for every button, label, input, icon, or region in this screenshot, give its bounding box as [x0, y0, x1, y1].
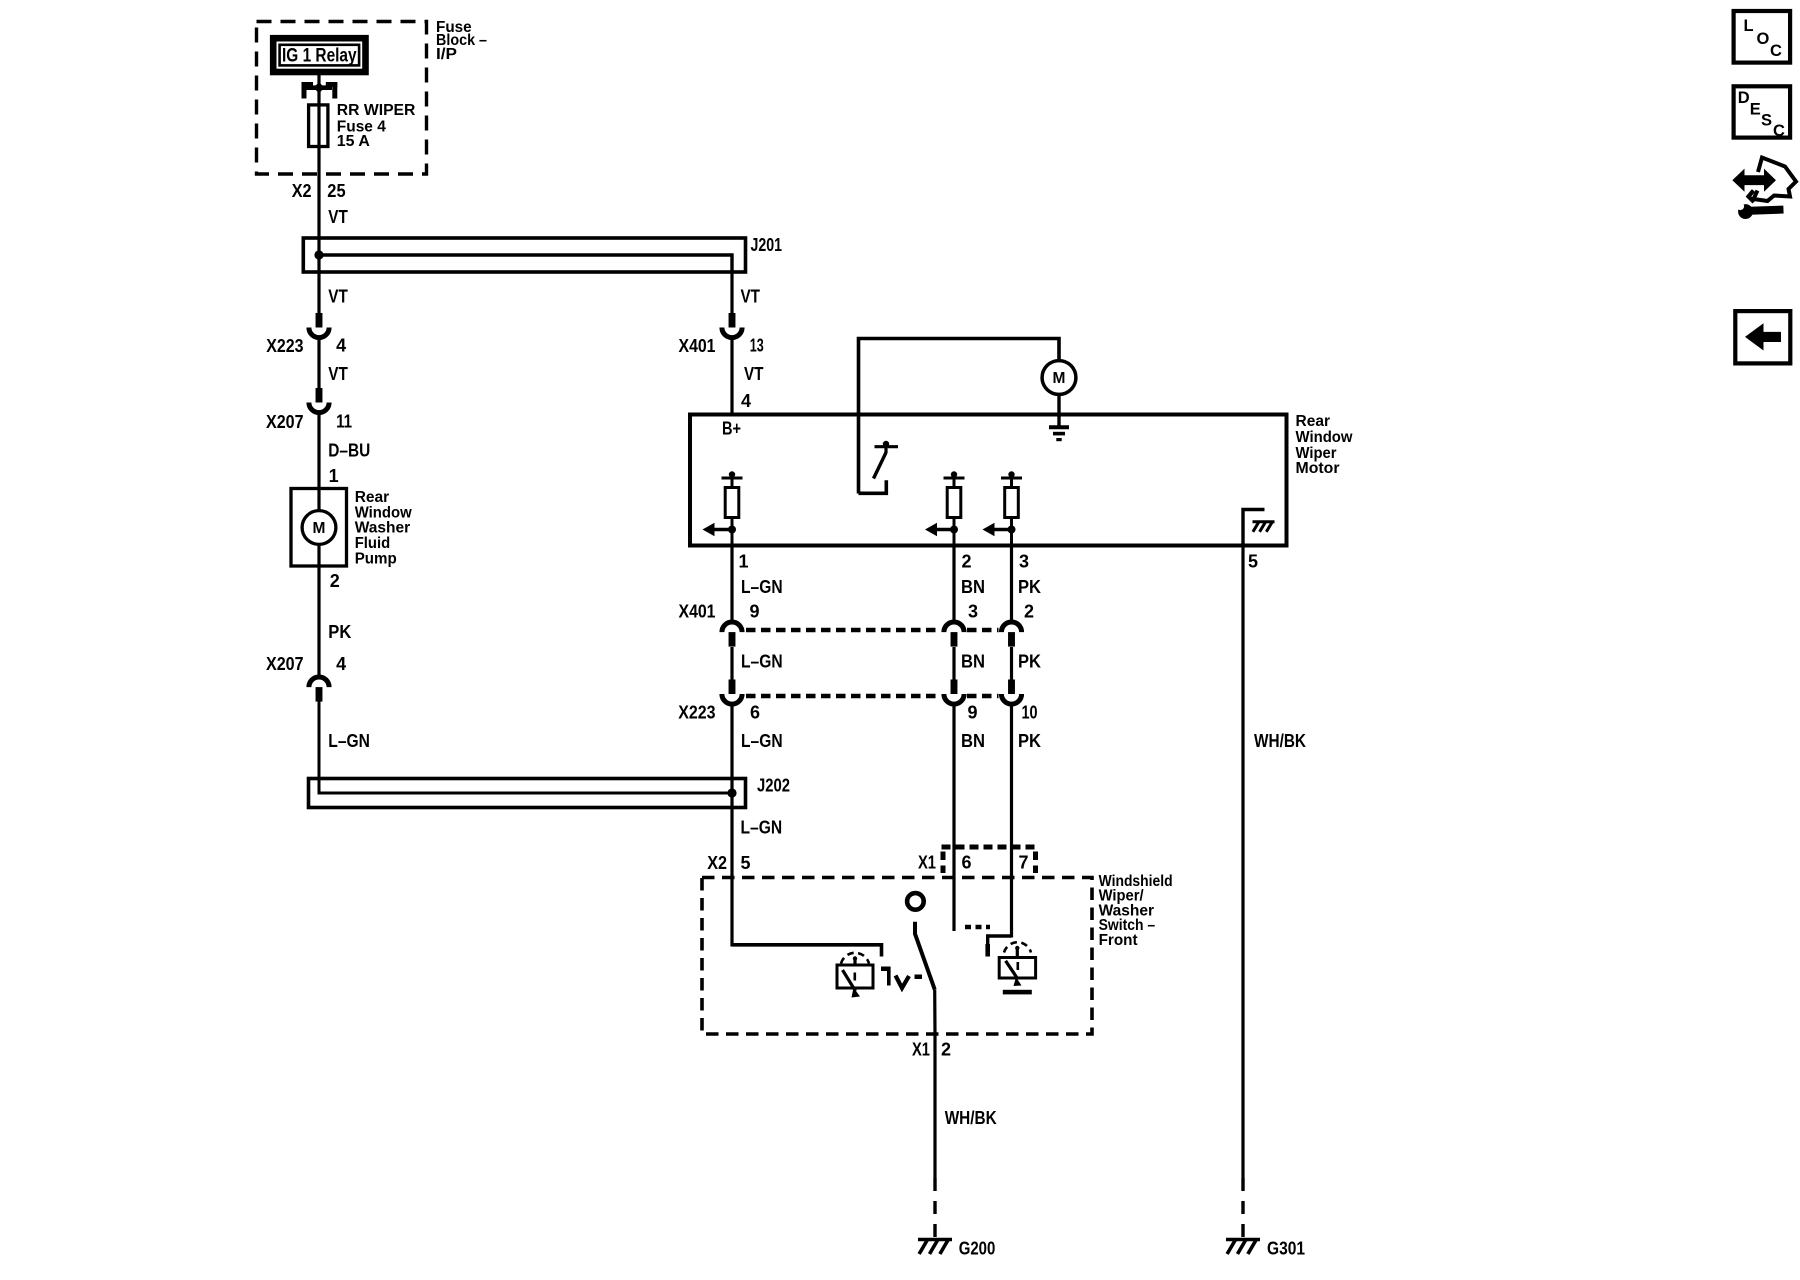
svg-text:7: 7	[1019, 853, 1029, 873]
svg-text:4: 4	[336, 654, 346, 674]
svg-text:PK: PK	[1018, 577, 1041, 597]
icon diagnostic arrows and wrench	[1754, 158, 1797, 202]
svg-text:E: E	[1750, 100, 1761, 118]
svg-text:Window: Window	[1296, 429, 1354, 446]
washer pump icon (washer switch)	[1004, 942, 1031, 952]
junction dot in J202	[727, 788, 736, 797]
svg-text:D–BU: D–BU	[328, 441, 370, 461]
wire PK (left)	[317, 566, 320, 675]
svg-text:S: S	[1761, 112, 1772, 130]
wire L-GN mid	[730, 647, 733, 680]
svg-text:PK: PK	[1018, 731, 1041, 751]
svg-text:X207: X207	[266, 412, 304, 432]
wire relay to fuse	[317, 75, 320, 106]
svg-text:L–GN: L–GN	[741, 818, 783, 838]
svg-text:6: 6	[750, 703, 760, 723]
svg-text:1: 1	[739, 552, 749, 572]
svg-text:L–GN: L–GN	[741, 731, 783, 751]
svg-text:L–GN: L–GN	[741, 577, 783, 597]
svg-text:X207: X207	[266, 654, 304, 674]
svg-text:RR WIPER: RR WIPER	[337, 102, 416, 119]
wire PK mid	[1010, 647, 1013, 680]
svg-text:9: 9	[750, 601, 760, 621]
svg-text:M: M	[313, 520, 326, 537]
svg-text:J201: J201	[751, 235, 783, 255]
wiper park-position icon (wiper switch)	[841, 953, 869, 964]
ground G200 chassis symbol	[918, 1238, 952, 1242]
svg-text:C: C	[1770, 42, 1782, 60]
X401 harness dashed line	[746, 628, 941, 633]
wire J201 down-left (VT)	[317, 272, 320, 314]
wire fuse to splice J201 (VT)	[317, 147, 320, 273]
svg-text:5: 5	[1248, 552, 1258, 572]
connector X207 pin 4 (left lower)	[309, 677, 329, 687]
splice pack J202	[309, 779, 746, 808]
connector X207 pin 11 (left)	[316, 388, 323, 403]
svg-text:Rear: Rear	[1296, 413, 1331, 430]
svg-text:Front: Front	[1099, 932, 1139, 949]
fuse block dashed boundary (Fuse Block - I/P)	[257, 22, 427, 175]
switch input wire bend to wiper contact	[732, 945, 882, 957]
connector X1 dotted group for pins 6 and 7	[942, 845, 1038, 850]
motor contact pin 2 with wiper arrow	[951, 471, 957, 477]
wire J201 down-right (VT)	[730, 272, 733, 314]
wire D-BU	[317, 415, 320, 489]
junction dot in J201	[314, 250, 323, 259]
svg-text:VT: VT	[328, 364, 348, 384]
wire VT to motor B+	[730, 340, 733, 415]
svg-text:2: 2	[330, 571, 340, 591]
svg-text:VT: VT	[744, 364, 764, 384]
svg-text:G301: G301	[1267, 1238, 1305, 1258]
svg-text:J202: J202	[757, 776, 790, 796]
icon LOC box	[1734, 11, 1791, 63]
svg-text:WH/BK: WH/BK	[1254, 731, 1306, 751]
svg-text:VT: VT	[328, 207, 348, 227]
icon DESC box	[1734, 86, 1791, 137]
relay IG 1 Relay	[273, 38, 365, 72]
wire BN mid	[952, 647, 955, 680]
pin 5 chassis ground symbol	[1253, 520, 1275, 523]
park switch fixed contact	[859, 480, 887, 493]
connector X401 pin 3	[952, 546, 955, 620]
svg-text:X223: X223	[678, 703, 715, 723]
svg-text:2: 2	[941, 1040, 951, 1060]
switch throw contact marks	[881, 967, 891, 972]
svg-text:M: M	[1053, 370, 1066, 387]
svg-text:2: 2	[1024, 601, 1034, 621]
svg-text:PK: PK	[1018, 652, 1041, 672]
wire PK to switch X1-7	[1010, 707, 1013, 938]
ground G301 chassis symbol	[1226, 1238, 1260, 1242]
washer icon base bar	[1003, 990, 1032, 995]
svg-text:10: 10	[1022, 703, 1038, 723]
motor contact pin 1 with wiper arrow	[729, 471, 735, 477]
svg-text:B+: B+	[722, 418, 741, 438]
svg-text:O: O	[1757, 30, 1770, 48]
svg-text:L–GN: L–GN	[328, 731, 370, 751]
motor pin 5 internal ground lead	[1243, 510, 1265, 547]
connector X223 pin 9	[951, 680, 958, 695]
mechanical linkage dashes	[965, 925, 990, 930]
svg-text:6: 6	[962, 853, 972, 873]
svg-text:4: 4	[336, 336, 346, 356]
svg-text:BN: BN	[961, 652, 985, 672]
fuse F4 RR WIPER 15 A	[317, 106, 320, 147]
motor internal wire loop to armature	[859, 339, 1060, 494]
svg-text:D: D	[1738, 89, 1750, 107]
svg-text:13: 13	[750, 336, 764, 356]
connector X401 pin 9	[730, 546, 733, 620]
svg-text:15 A: 15 A	[337, 133, 370, 150]
motor contact pin 3 with wiper arrow	[1008, 471, 1014, 477]
svg-text:X401: X401	[679, 336, 716, 356]
wire WH/BK switch to G200	[933, 1034, 936, 1178]
svg-text:X1: X1	[912, 1040, 930, 1060]
wire VT (left)	[317, 340, 320, 389]
switch blade	[915, 922, 935, 990]
relay terminal clip with junction diamond	[302, 82, 314, 87]
svg-text:C: C	[1773, 122, 1785, 140]
splice pack J201	[303, 238, 745, 272]
svg-text:IG 1 Relay: IG 1 Relay	[282, 45, 357, 66]
svg-text:X2: X2	[292, 181, 312, 201]
svg-text:X2: X2	[707, 853, 727, 873]
rear window washer fluid pump box	[291, 489, 347, 567]
svg-text:VT: VT	[328, 286, 348, 306]
connector X223 pin 4 (left)	[316, 313, 323, 328]
park switch pivot and blade	[875, 445, 899, 448]
svg-text:WH/BK: WH/BK	[945, 1108, 997, 1128]
svg-text:X401: X401	[679, 601, 716, 621]
svg-text:PK: PK	[328, 622, 351, 642]
wire L-GN into J202	[319, 702, 732, 794]
windshield wiper/washer switch dashed box	[702, 878, 1092, 1035]
rear window wiper motor box	[690, 415, 1287, 546]
switch output wire to X1-2	[933, 990, 936, 1035]
svg-text:25: 25	[327, 181, 345, 201]
wire WH/BK to G301 dashes	[1241, 1178, 1244, 1238]
svg-text:9: 9	[968, 703, 978, 723]
svg-text:I/P: I/P	[436, 46, 457, 63]
switch pivot contact circle	[907, 893, 924, 910]
connector X223 pin 10	[1008, 680, 1015, 695]
svg-text:Motor: Motor	[1296, 460, 1340, 477]
connector X401 pin 2	[1010, 546, 1013, 620]
svg-text:G200: G200	[959, 1238, 996, 1258]
svg-text:5: 5	[741, 853, 751, 873]
svg-text:Pump: Pump	[355, 550, 397, 567]
svg-text:4: 4	[741, 391, 751, 411]
motor armature M circle	[1042, 361, 1076, 395]
svg-text:X1: X1	[918, 853, 936, 873]
wire BN to switch X1-6	[952, 707, 955, 932]
svg-text:11: 11	[336, 412, 352, 432]
svg-text:BN: BN	[961, 731, 985, 751]
svg-text:3: 3	[968, 601, 978, 621]
svg-text:L: L	[1744, 17, 1754, 35]
washer switch branch bend	[988, 936, 1012, 957]
svg-text:1: 1	[329, 466, 339, 486]
X223 harness dashed line	[746, 694, 941, 699]
svg-text:3: 3	[1019, 552, 1029, 572]
svg-text:L–GN: L–GN	[741, 652, 783, 672]
svg-text:BN: BN	[961, 577, 985, 597]
svg-text:VT: VT	[741, 286, 761, 306]
icon back arrow box	[1735, 311, 1790, 363]
pump motor M circle	[302, 511, 336, 545]
wire WH/BK from motor pin 5 to G301	[1241, 546, 1244, 1178]
svg-text:2: 2	[962, 552, 972, 572]
connector X223 pin 6	[729, 680, 736, 695]
wire L-GN from X223-6 through J202 to switch	[730, 707, 733, 947]
armature earth ground	[1057, 395, 1060, 426]
wire VT to connector X401 pin 13	[729, 313, 736, 328]
svg-text:X223: X223	[266, 336, 303, 356]
